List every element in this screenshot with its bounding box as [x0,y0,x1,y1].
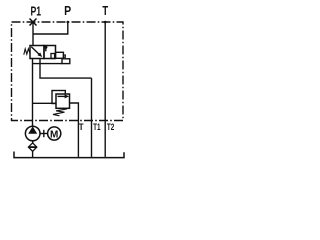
wire P drop and tie to P1 riser [33,22,68,34]
enclosure dash-dot boundary [12,22,124,121]
node T junction dot [104,21,107,24]
svg-text:P1: P1 [31,4,42,18]
valve V1 pilot box (right) [56,52,64,58]
relief valve RV spring (below) [53,109,67,116]
svg-text:T2: T2 [107,122,114,132]
wire T line from top port down to tank [104,22,106,157]
shaft coupling [40,133,47,135]
wire T1 line down to tank [91,78,93,157]
tank reservoir [14,152,124,158]
wire P1 drop into valve [32,22,34,46]
valve V1 arrow in left square [31,47,39,55]
svg-text:T: T [79,122,84,132]
wire relief input from riser [33,102,57,104]
motor M circle [48,127,61,140]
pump flow triangle [28,126,37,133]
node P junction dot [67,21,70,24]
svg-text:P: P [64,4,71,18]
relief valve RV arrow [58,95,66,97]
valve V1 pilot step box [62,59,70,64]
wire filter to tank [32,151,34,157]
filter F diamond [28,143,36,151]
wire pump suction [32,141,34,144]
wire relief output to T tank line [70,103,79,157]
relief valve RV inner square [56,94,70,108]
relief valve RV outer square [52,91,65,104]
pump P circle [25,126,40,141]
wire pilot line to pressure riser [33,63,63,65]
valve V1 body left square [30,46,44,59]
wire valve tank port to T1 [40,59,92,79]
svg-text:M: M [50,129,58,140]
port P1 plug X [30,19,37,26]
wire pressure riser valve-to-pump [32,59,34,127]
valve V1 blocked port in right square [45,46,47,52]
valve V1 spring (left) [24,49,30,55]
valve V1 body right square [44,46,56,59]
svg-text:T: T [102,4,108,18]
svg-text:T1: T1 [93,122,100,132]
